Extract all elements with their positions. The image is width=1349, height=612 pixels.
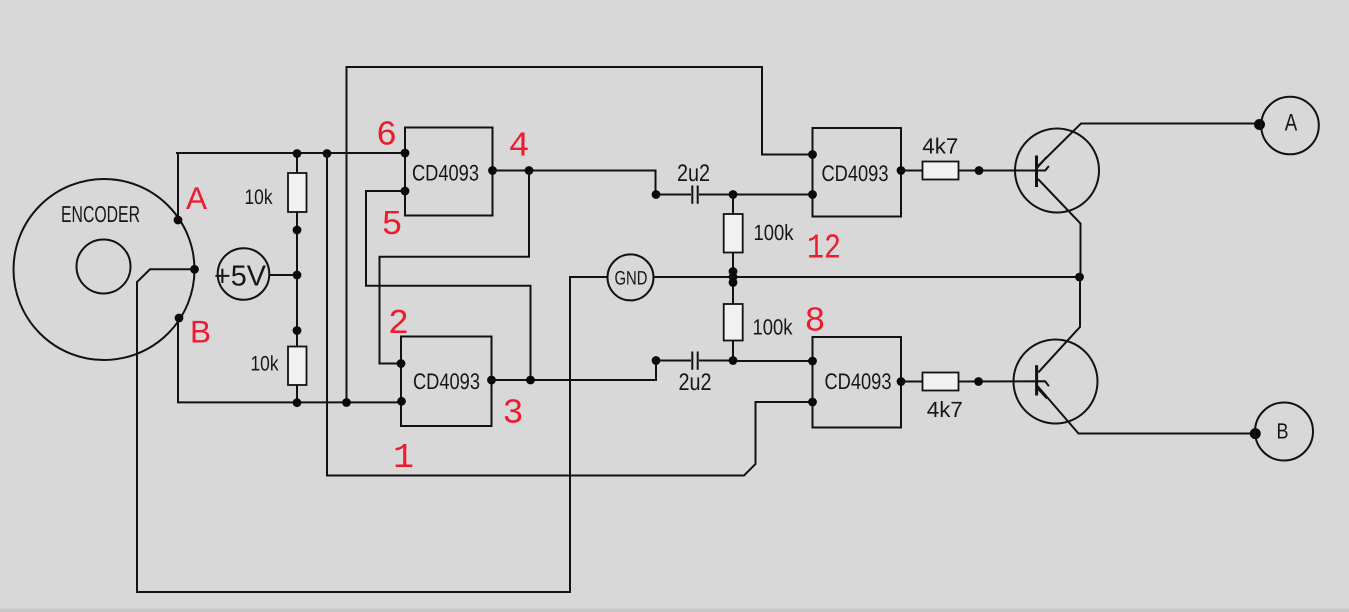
output B node dot [1250, 428, 1261, 439]
resistor R6 4k7 bottom [901, 381, 923, 383]
wire chain lower lead [296, 385, 298, 402]
node top 10k upper junction [293, 149, 302, 158]
connector A circle [1261, 97, 1319, 155]
capacitor C2 2u2 bottom [691, 352, 693, 370]
svg-text:12: 12 [807, 229, 841, 269]
wire A-line top horizontal to pin 6 [176, 152, 405, 154]
node encoder wiper contact [190, 265, 199, 274]
supply +5V circle [218, 248, 270, 300]
node GND junction lower [729, 278, 738, 287]
svg-text:5: 5 [381, 205, 402, 245]
wire chain upper lead [296, 153, 298, 173]
svg-text:10k: 10k [251, 353, 279, 376]
node C2 left [652, 356, 661, 365]
node B encoder contact [175, 314, 184, 323]
transistor Q1 top [1015, 129, 1099, 213]
wire pin5 feedback to output 3 [366, 191, 531, 380]
wire wiper to GND loop [137, 269, 608, 592]
Q2 emitter to output B [1037, 386, 1256, 434]
resistor R5 4k7 top [901, 170, 923, 172]
wire C2 right to gate pin [699, 360, 813, 363]
node +5V junction [293, 271, 302, 280]
node C1 left [652, 190, 661, 199]
svg-text:8: 8 [804, 302, 825, 342]
svg-text:4k7: 4k7 [922, 134, 958, 159]
svg-text:CD4093: CD4093 [825, 369, 892, 394]
svg-text:+5V: +5V [214, 261, 267, 293]
node R5 right [975, 166, 984, 175]
gate U1B CD4093 box bottom-left [401, 337, 492, 427]
svg-text:6: 6 [376, 116, 397, 156]
node GND junction upper [729, 267, 738, 276]
svg-text:10k: 10k [245, 186, 273, 209]
svg-text:A: A [186, 180, 207, 216]
svg-text:CD4093: CD4093 [822, 161, 889, 186]
svg-text:CD4093: CD4093 [413, 369, 480, 394]
node A-line junction x327 [323, 149, 332, 158]
pin 4 output node [488, 166, 497, 175]
svg-text:1: 1 [393, 438, 414, 478]
svg-text:100k: 100k [754, 220, 795, 245]
node output4 branch junction [525, 166, 534, 175]
node top rail bottom junction [342, 398, 351, 407]
U2A input pin node top [808, 150, 817, 159]
node R6 right [974, 377, 983, 386]
transistor Q2 bottom [1014, 340, 1098, 424]
Q1 emitter to GND rail [1038, 179, 1081, 277]
wire feedback output4 to pin2 [380, 171, 530, 364]
node C2 right junction [729, 356, 738, 365]
node C1 right junction [729, 190, 738, 199]
U2B input pin node top [808, 357, 817, 366]
encoder inner circle [77, 240, 131, 294]
wire chain middle [296, 212, 298, 347]
U2A output node [897, 166, 906, 175]
resistor R1 10k top box [288, 173, 307, 212]
node output3 branch junction [526, 376, 535, 385]
node GND rail end [1075, 273, 1084, 282]
wire +5V lead [269, 274, 298, 276]
node bottom 10k lower junction [293, 398, 302, 407]
Q1 collector to output A [1038, 124, 1262, 167]
svg-text:4k7: 4k7 [927, 397, 963, 422]
svg-text:2u2: 2u2 [679, 369, 712, 396]
U2B gate CD4093 box bottom-right [813, 337, 902, 428]
wire output4 to cap C1 [493, 171, 692, 195]
resistor R3 100k top [732, 195, 734, 215]
wire encoder B to bottom-left corner [177, 318, 179, 403]
Q1 arrow [1037, 157, 1046, 168]
U2B output node [897, 377, 906, 386]
svg-text:2u2: 2u2 [677, 160, 710, 187]
gate U2A CD4093 box top-right [813, 128, 902, 217]
svg-text:3: 3 [502, 394, 523, 434]
output A node dot [1254, 119, 1265, 130]
wire output3 to cap C2 [492, 361, 692, 381]
svg-text:4: 4 [508, 127, 529, 167]
gate U1A CD4093 box top-left [405, 128, 493, 216]
svg-text:A: A [1285, 110, 1298, 137]
pin 5 node [401, 187, 410, 196]
resistor R4 100k bottom [732, 277, 734, 304]
connector B circle [1255, 403, 1313, 461]
wire A-net down from x327 to bottom-right gate pin (net 1) [327, 154, 813, 476]
node chain lower mid junction [293, 326, 302, 335]
bottom window band [0, 609, 1349, 612]
svg-text:100k: 100k [753, 315, 794, 340]
pin 2 node [397, 359, 406, 368]
ground GND circle [608, 254, 654, 300]
pin 6 node [401, 149, 410, 158]
capacitor C1 2u2 top [691, 186, 693, 204]
svg-text:B: B [190, 314, 211, 350]
svg-text:GND: GND [615, 268, 648, 290]
node GND junction mid [729, 273, 738, 282]
Q2 collector up to GND rail [1038, 277, 1080, 372]
pin 1 node [397, 397, 406, 406]
wire C1 right to gate pin [699, 194, 813, 196]
Q2 arrow [1037, 388, 1047, 398]
node chain upper mid junction [293, 226, 302, 235]
node A encoder contact [174, 216, 183, 225]
svg-text:CD4093: CD4093 [412, 161, 479, 186]
resistor R2 10k bottom box [288, 347, 307, 386]
U2B input pin node bottom [808, 398, 817, 407]
wire encoder A to top-left corner [177, 152, 179, 220]
U2A input pin node bottom [808, 190, 817, 199]
svg-text:2: 2 [388, 304, 409, 344]
svg-text:ENCODER: ENCODER [61, 201, 140, 227]
svg-text:B: B [1277, 419, 1289, 444]
pin 3 output node [487, 376, 496, 385]
wire top rail from B-line up and across to right gate pin [347, 67, 813, 402]
encoder ENC1 outer circle [14, 179, 195, 360]
wire B-line bottom horizontal to pin 1 [177, 401, 401, 403]
wire GND right rail [653, 276, 1080, 278]
